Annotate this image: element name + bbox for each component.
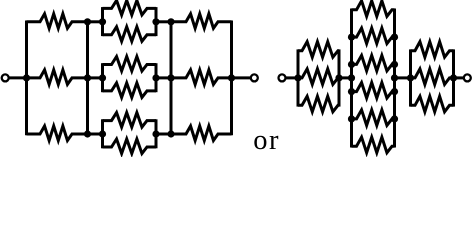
group 2 right bus wire (393, 9, 396, 148)
loop 3 left side wire (101, 119, 104, 148)
wire group 2 to group 3 (395, 76, 411, 79)
resistor R3 (row 1, loop bottom branch) (103, 27, 157, 42)
terminal T4 (right circuit output) (464, 74, 471, 81)
right bus wire (230, 21, 233, 136)
resistor R16 (group 2, branch 1) (352, 1, 395, 16)
resistor R2 (row 1, loop top branch) (103, 0, 157, 15)
resistor R18 (group 2, branch 3) (352, 55, 395, 71)
junction group 1 right (335, 74, 342, 81)
group 1 right bus wire (338, 49, 341, 106)
wire loop 1 to bus B (156, 20, 171, 23)
junction row 2 / bus A (84, 74, 91, 81)
resistor R5 (row 2, first column) (27, 70, 88, 85)
junction loop 2 right (152, 74, 159, 81)
resistor R22 (group 3, branch 1) (411, 42, 454, 58)
junction group 2 right bus / branch at y=118.9 (391, 115, 398, 122)
loop 2 right side wire (155, 63, 158, 92)
junction group 2 right bus / branch at y=91.6 (391, 88, 398, 95)
wire bus A to loop 2 (88, 76, 103, 79)
wire bus A to loop 3 (88, 133, 103, 136)
wire right bus to T2 (232, 76, 251, 79)
resistor R17 (group 2, branch 2) (352, 28, 395, 43)
junction loop 1 left (99, 18, 106, 25)
resistor R15 (group 1, branch 3) (298, 96, 339, 112)
resistor R1 (row 1, first column) (27, 14, 88, 28)
resistor R20 (group 2, branch 5) (352, 110, 395, 126)
group 2 left bus wire (350, 9, 353, 148)
wire T3 to group 1 (286, 76, 299, 79)
resistor R9 (row 3, first column) (27, 126, 88, 141)
junction group 2 left bus / branch at y=118.9 (348, 115, 355, 122)
terminal T1 (left circuit input) (2, 74, 9, 81)
junction loop 3 right (152, 130, 159, 137)
left bus wire (25, 21, 28, 136)
wire T1 to left bus (9, 76, 27, 79)
resistor R13 (group 1, branch 1) (298, 42, 339, 58)
junction row 1 / bus B (167, 18, 174, 25)
terminal T2 (left circuit output) (251, 74, 258, 81)
resistor R10 (row 3, loop top branch) (103, 113, 157, 128)
wire group 3 to T4 (454, 76, 464, 79)
resistor R7 (row 2, loop bottom branch) (103, 83, 157, 98)
resistor R24 (group 3, branch 3) (411, 96, 454, 112)
junction group 3 left (407, 74, 414, 81)
group 3 left bus wire (409, 49, 412, 106)
bus A wire (first internal bus) (86, 21, 89, 136)
junction row 3 / bus A (84, 130, 91, 137)
junction group 1 left (294, 74, 301, 81)
junction group 2 left (348, 74, 355, 81)
loop 1 right side wire (155, 7, 158, 36)
wire group 1 to group 2 (339, 76, 352, 79)
resistor R11 (row 3, loop bottom branch) (103, 139, 157, 154)
resistor R23 (group 3, branch 2) (411, 69, 454, 85)
resistor R19 (group 2, branch 4) (352, 83, 395, 99)
junction group 2 right bus / branch at y=64.4 (391, 61, 398, 68)
junction group 2 left bus / branch at y=64.4 (348, 61, 355, 68)
loop 1 left side wire (101, 7, 104, 36)
resistor R12 (row 3, last column) (171, 126, 232, 141)
wire loop 3 to bus B (156, 133, 171, 136)
junction group 3 right (450, 74, 457, 81)
resistor R21 (group 2, branch 6) (352, 137, 395, 153)
resistor R6 (row 2, loop top branch) (103, 57, 157, 72)
junction loop 3 left (99, 130, 106, 137)
wire bus A to loop 1 (88, 20, 103, 23)
junction group 2 right bus / branch at y=37.1 (391, 34, 398, 41)
wire loop 2 to bus B (156, 76, 171, 79)
loop 2 left side wire (101, 63, 104, 92)
junction row 1 / bus A (84, 18, 91, 25)
junction loop 1 right (152, 18, 159, 25)
resistor R14 (group 1, branch 2) (298, 69, 339, 85)
junction group 2 left bus / branch at y=37.1 (348, 34, 355, 41)
resistor R4 (row 1, last column) (171, 14, 232, 28)
bus B wire (second internal bus) (170, 21, 173, 136)
junction right bus / T2 wire (228, 74, 235, 81)
junction group 2 right (391, 74, 398, 81)
group 1 left bus wire (297, 49, 300, 106)
svg-text:or: or (253, 125, 280, 156)
junction row 3 / bus B (167, 130, 174, 137)
resistor R8 (row 2, last column) (171, 70, 232, 85)
loop 3 right side wire (155, 119, 158, 148)
junction group 2 left bus / branch at y=91.6 (348, 88, 355, 95)
junction loop 2 left (99, 74, 106, 81)
junction row 2 / bus B (167, 74, 174, 81)
terminal T3 (right circuit input) (279, 74, 286, 81)
junction left bus / T1 wire (23, 74, 30, 81)
group 3 right bus wire (452, 49, 455, 106)
